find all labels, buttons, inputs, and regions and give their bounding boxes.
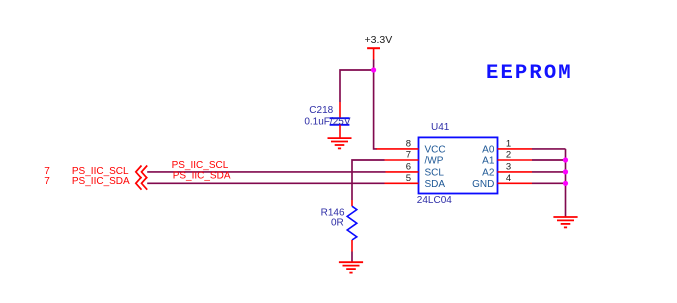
- svg-text:3: 3: [506, 161, 511, 172]
- pin 5 SDA stub: [385, 182, 419, 184]
- svg-text:4: 4: [506, 173, 511, 184]
- svg-text:VCC: VCC: [425, 145, 446, 156]
- pin numbers: [406, 138, 511, 183]
- svg-text:A0: A0: [482, 145, 495, 156]
- svg-text:6: 6: [406, 161, 411, 172]
- svg-text:8: 8: [406, 138, 411, 149]
- pin 3 A2 stub: [498, 171, 533, 173]
- wire GND row right: [532, 182, 566, 184]
- svg-text:SDA: SDA: [425, 179, 446, 190]
- svg-text:2: 2: [506, 150, 511, 161]
- svg-text:1: 1: [506, 138, 511, 149]
- wire R146 to ground: [351, 252, 353, 263]
- wire A0 row right: [532, 148, 566, 150]
- junction dot power node: [371, 67, 376, 72]
- ground under C218: [328, 138, 352, 148]
- wire SDA row: [147, 182, 384, 184]
- svg-text:PS_IIC_SDA: PS_IIC_SDA: [72, 176, 130, 187]
- svg-text:24LC04: 24LC04: [417, 195, 452, 206]
- junction dot A1: [563, 157, 568, 162]
- IC U41 box: [419, 137, 498, 193]
- svg-text:0.1uF/25V: 0.1uF/25V: [304, 116, 350, 127]
- junction dot A2: [563, 169, 568, 174]
- pin names: [425, 145, 495, 190]
- wire right vertical to ground: [565, 149, 567, 217]
- svg-text:7: 7: [406, 150, 411, 161]
- svg-text:7: 7: [44, 176, 50, 187]
- ground under R146: [339, 262, 363, 272]
- svg-text:A1: A1: [482, 156, 495, 167]
- ground right: [553, 217, 577, 227]
- power +3.3V: [365, 34, 393, 59]
- junction dot GND: [563, 181, 568, 186]
- wire power vertical to VCC row: [374, 60, 377, 149]
- wire SCL row: [147, 171, 385, 173]
- svg-text:PS_IIC_SCL: PS_IIC_SCL: [172, 160, 229, 171]
- off-page connector PS_IIC_SDA: [136, 177, 147, 190]
- svg-text:/WP: /WP: [425, 156, 444, 167]
- pin 8 VCC stub: [377, 148, 419, 150]
- svg-text:EEPROM: EEPROM: [486, 62, 573, 85]
- wire A2 row right: [532, 171, 566, 173]
- svg-text:5: 5: [406, 173, 411, 184]
- svg-text:U41: U41: [431, 122, 450, 133]
- pin 7 /WP stub: [385, 159, 419, 161]
- off-page connector PS_IIC_SCL: [136, 166, 147, 179]
- wire branch to C218: [340, 70, 374, 102]
- pin 2 A1 stub: [498, 159, 533, 161]
- svg-text:PS_IIC_SDA: PS_IIC_SDA: [173, 171, 231, 182]
- svg-text:SCL: SCL: [425, 168, 445, 179]
- capacitor C218: [304, 102, 350, 138]
- wire A1 row right: [532, 159, 566, 161]
- wire /WP branch to R146: [352, 160, 385, 200]
- svg-text:C218: C218: [309, 105, 333, 116]
- svg-text:GND: GND: [472, 179, 494, 190]
- pin 4 GND stub: [498, 182, 533, 184]
- svg-text:+3.3V: +3.3V: [365, 34, 393, 46]
- svg-text:A2: A2: [482, 168, 495, 179]
- pin 6 SCL stub: [386, 171, 419, 173]
- svg-text:0R: 0R: [331, 218, 344, 229]
- resistor R146: [321, 200, 357, 252]
- pin 1 A0 stub: [498, 148, 533, 150]
